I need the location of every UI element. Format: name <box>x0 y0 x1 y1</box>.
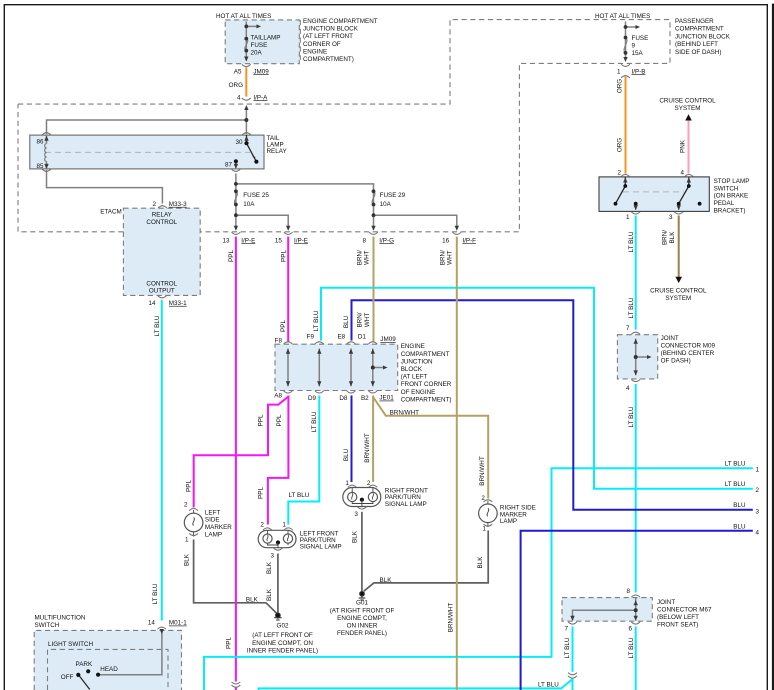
svg-text:LT BLU: LT BLU <box>311 411 318 432</box>
svg-text:JOINT: JOINT <box>657 599 675 606</box>
svg-text:I/P-G: I/P-G <box>379 237 394 244</box>
svg-text:2: 2 <box>756 487 760 494</box>
svg-text:87: 87 <box>225 161 233 168</box>
svg-text:BRN/: BRN/ <box>357 250 364 265</box>
svg-text:LT BLU: LT BLU <box>725 461 746 468</box>
svg-text:SYSTEM: SYSTEM <box>665 295 691 302</box>
svg-text:ETACM: ETACM <box>100 208 122 215</box>
svg-text:BRN/WHT: BRN/WHT <box>364 433 371 463</box>
svg-text:WHT: WHT <box>364 313 371 327</box>
svg-text:(AT LEFT FRONT: (AT LEFT FRONT <box>303 33 353 40</box>
svg-text:ON INNER: ON INNER <box>347 623 378 630</box>
svg-text:PPL: PPL <box>280 320 287 332</box>
svg-text:PPL: PPL <box>226 637 233 649</box>
svg-text:PASSENGER: PASSENGER <box>675 18 714 25</box>
svg-text:3: 3 <box>354 511 358 518</box>
svg-text:RELAY: RELAY <box>152 212 173 219</box>
svg-text:BLK: BLK <box>246 596 259 603</box>
svg-text:WHT: WHT <box>364 250 371 264</box>
svg-text:BLK: BLK <box>669 231 676 244</box>
svg-text:M33-3: M33-3 <box>169 201 187 208</box>
svg-text:8: 8 <box>362 237 366 244</box>
svg-text:BRN/WHT: BRN/WHT <box>390 409 420 416</box>
svg-text:BRN/: BRN/ <box>440 250 447 265</box>
svg-text:BRN/: BRN/ <box>662 230 669 245</box>
svg-text:BRACKET): BRACKET) <box>714 207 746 214</box>
svg-text:15: 15 <box>275 237 283 244</box>
svg-text:OUTPUT: OUTPUT <box>149 288 175 295</box>
svg-text:ORG: ORG <box>229 82 243 89</box>
svg-text:LT BLU: LT BLU <box>628 297 635 318</box>
svg-text:LT BLU: LT BLU <box>628 406 635 427</box>
svg-text:BLU: BLU <box>343 448 350 461</box>
svg-text:BRN/WHT: BRN/WHT <box>479 456 486 486</box>
svg-text:BRN/: BRN/ <box>357 312 364 327</box>
svg-text:2: 2 <box>617 169 621 176</box>
svg-text:LT BLU: LT BLU <box>538 682 559 689</box>
svg-text:OFF: OFF <box>61 674 74 681</box>
svg-text:BLOCK: BLOCK <box>401 366 423 373</box>
svg-text:JUNCTION BLOCK: JUNCTION BLOCK <box>303 26 359 33</box>
svg-text:7: 7 <box>564 625 568 632</box>
svg-text:BLK: BLK <box>266 561 273 574</box>
svg-text:SIGNAL LAMP: SIGNAL LAMP <box>300 543 342 550</box>
svg-text:MULTIFUNCTION: MULTIFUNCTION <box>35 614 86 621</box>
svg-text:(AT LEFT: (AT LEFT <box>401 374 428 381</box>
svg-text:BLK: BLK <box>477 556 484 569</box>
svg-text:1: 1 <box>626 214 630 221</box>
svg-text:LT BLU: LT BLU <box>152 583 159 604</box>
svg-text:MARKER: MARKER <box>205 524 232 531</box>
svg-text:(ON BRAKE: (ON BRAKE <box>714 193 749 200</box>
svg-text:COMPARTMENT): COMPARTMENT) <box>303 56 354 63</box>
svg-text:ENGINE COMPT, ON: ENGINE COMPT, ON <box>252 640 313 647</box>
svg-text:14: 14 <box>148 300 156 307</box>
svg-text:HOT AT ALL TIMES: HOT AT ALL TIMES <box>216 13 271 20</box>
svg-text:1: 1 <box>756 467 760 474</box>
svg-text:JOINT: JOINT <box>661 335 679 342</box>
svg-text:PPL: PPL <box>258 414 265 426</box>
svg-text:FRONT SEAT): FRONT SEAT) <box>657 622 698 629</box>
svg-text:LT BLU: LT BLU <box>628 231 635 252</box>
svg-text:BLK: BLK <box>380 577 393 584</box>
svg-text:G01: G01 <box>356 600 368 607</box>
svg-text:I/P-B: I/P-B <box>632 68 646 75</box>
svg-text:RIGHT SIDE: RIGHT SIDE <box>500 504 536 511</box>
svg-text:OF ENGINE: OF ENGINE <box>401 389 436 396</box>
svg-text:FUSE: FUSE <box>251 42 268 49</box>
svg-text:SIDE OF DASH): SIDE OF DASH) <box>675 49 722 56</box>
svg-text:LAMP: LAMP <box>500 518 517 525</box>
svg-text:A5: A5 <box>234 68 242 75</box>
svg-text:E8: E8 <box>337 333 345 340</box>
svg-text:PARK: PARK <box>76 661 93 668</box>
svg-text:1: 1 <box>185 537 189 544</box>
svg-text:BLK: BLK <box>266 588 273 601</box>
svg-text:13: 13 <box>222 237 230 244</box>
svg-text:LT BLU: LT BLU <box>313 310 320 331</box>
svg-text:PPL: PPL <box>258 487 265 499</box>
svg-text:4: 4 <box>237 94 241 101</box>
svg-text:1: 1 <box>482 525 486 532</box>
svg-text:15A: 15A <box>632 50 644 57</box>
svg-text:ORG: ORG <box>617 79 624 93</box>
svg-text:2: 2 <box>184 501 188 508</box>
svg-text:PNK: PNK <box>680 139 687 153</box>
svg-text:4: 4 <box>680 169 684 176</box>
svg-text:I/P-A: I/P-A <box>253 94 268 101</box>
svg-text:(AT RIGHT FRONT OF: (AT RIGHT FRONT OF <box>330 608 395 615</box>
svg-text:20A: 20A <box>251 50 263 57</box>
svg-text:JUNCTION BLOCK: JUNCTION BLOCK <box>675 33 731 40</box>
svg-text:JE01: JE01 <box>379 395 394 402</box>
svg-text:LT BLU: LT BLU <box>628 637 635 658</box>
svg-text:(BEHIND LEFT: (BEHIND LEFT <box>675 41 718 48</box>
svg-text:INNER FENDER PANEL): INNER FENDER PANEL) <box>247 647 318 654</box>
svg-text:FRONT CORNER: FRONT CORNER <box>401 381 452 388</box>
svg-text:ENGINE COMPARTMENT: ENGINE COMPARTMENT <box>303 18 378 25</box>
svg-text:COMPARTMENT): COMPARTMENT) <box>401 396 452 403</box>
svg-text:PEDAL: PEDAL <box>714 200 735 207</box>
svg-text:PPL: PPL <box>276 414 283 426</box>
svg-text:BRN/WHT: BRN/WHT <box>448 603 455 633</box>
svg-text:JM09: JM09 <box>380 336 396 343</box>
svg-text:1: 1 <box>282 522 286 529</box>
svg-text:2: 2 <box>367 480 371 487</box>
svg-text:SWITCH: SWITCH <box>35 622 60 629</box>
svg-text:LEFT: LEFT <box>205 509 221 516</box>
svg-text:SYSTEM: SYSTEM <box>675 105 701 112</box>
svg-text:FUSE 29: FUSE 29 <box>380 192 406 199</box>
svg-text:86: 86 <box>36 138 44 145</box>
svg-text:ENGINE COMPT,: ENGINE COMPT, <box>337 615 387 622</box>
svg-text:1: 1 <box>345 480 349 487</box>
svg-text:FUSE 25: FUSE 25 <box>243 192 269 199</box>
svg-text:CONTROL: CONTROL <box>146 280 177 287</box>
svg-text:4: 4 <box>756 530 760 537</box>
svg-text:LT BLU: LT BLU <box>564 637 571 658</box>
svg-text:LT BLU: LT BLU <box>154 315 161 336</box>
svg-text:WHT: WHT <box>447 250 454 264</box>
svg-text:LT BLU: LT BLU <box>725 481 746 488</box>
svg-text:30: 30 <box>235 139 243 146</box>
svg-text:(BELOW LEFT: (BELOW LEFT <box>657 614 699 621</box>
svg-text:CONNECTOR M67: CONNECTOR M67 <box>657 607 712 614</box>
svg-text:M01-1: M01-1 <box>169 620 187 627</box>
svg-text:D1: D1 <box>358 333 367 340</box>
svg-text:I/P-F: I/P-F <box>462 237 476 244</box>
svg-text:OF DASH): OF DASH) <box>661 358 691 365</box>
svg-text:BLK: BLK <box>352 530 359 543</box>
svg-text:7: 7 <box>626 325 630 332</box>
svg-text:2: 2 <box>152 201 156 208</box>
svg-text:ORG: ORG <box>617 138 624 152</box>
svg-text:CONTROL: CONTROL <box>146 219 177 226</box>
svg-text:FUSE: FUSE <box>632 35 649 42</box>
svg-text:SWITCH: SWITCH <box>714 185 739 192</box>
svg-text:ENGINE: ENGINE <box>401 343 425 350</box>
svg-text:D9: D9 <box>308 395 317 402</box>
svg-text:F8: F8 <box>275 337 283 344</box>
svg-text:10A: 10A <box>380 201 392 208</box>
svg-text:PPL: PPL <box>228 250 235 262</box>
svg-text:COMPARTMENT: COMPARTMENT <box>675 26 724 33</box>
svg-text:I/P-E: I/P-E <box>241 237 255 244</box>
svg-text:CONNECTOR M09: CONNECTOR M09 <box>661 343 716 350</box>
svg-text:9: 9 <box>632 43 636 50</box>
svg-text:A8: A8 <box>274 393 282 400</box>
svg-text:SIDE: SIDE <box>205 517 220 524</box>
svg-text:2: 2 <box>481 495 485 502</box>
svg-text:JM09: JM09 <box>253 68 269 75</box>
svg-text:I/P-E: I/P-E <box>294 237 308 244</box>
svg-text:BLK: BLK <box>183 553 190 566</box>
svg-text:STOP LAMP: STOP LAMP <box>714 178 750 185</box>
svg-text:3: 3 <box>669 214 673 221</box>
svg-text:8: 8 <box>626 588 630 595</box>
svg-text:10A: 10A <box>243 201 255 208</box>
svg-text:14: 14 <box>148 620 156 627</box>
svg-text:(BEHIND CENTER: (BEHIND CENTER <box>661 350 715 357</box>
svg-text:16: 16 <box>442 237 450 244</box>
svg-text:M33-1: M33-1 <box>169 300 187 307</box>
svg-text:3: 3 <box>756 508 760 515</box>
svg-text:LT BLU: LT BLU <box>289 492 310 499</box>
svg-text:TAILLAMP: TAILLAMP <box>251 35 281 42</box>
svg-text:ENGINE: ENGINE <box>303 48 327 55</box>
svg-text:3: 3 <box>270 553 274 560</box>
svg-text:G02: G02 <box>277 623 289 630</box>
svg-text:85: 85 <box>36 163 44 170</box>
svg-text:1: 1 <box>617 68 621 75</box>
svg-text:PPL: PPL <box>280 250 287 262</box>
svg-text:(AT LEFT FRONT OF: (AT LEFT FRONT OF <box>252 632 313 639</box>
svg-text:2: 2 <box>260 522 264 529</box>
svg-text:BLU: BLU <box>733 523 746 530</box>
svg-text:LAMP: LAMP <box>205 531 222 538</box>
svg-text:FENDER PANEL): FENDER PANEL) <box>337 630 387 637</box>
svg-text:CRUISE CONTROL: CRUISE CONTROL <box>659 98 716 105</box>
svg-text:PPL: PPL <box>186 480 193 492</box>
svg-text:B2: B2 <box>361 395 369 402</box>
svg-text:F9: F9 <box>307 333 315 340</box>
svg-text:4: 4 <box>626 385 630 392</box>
svg-text:SIGNAL LAMP: SIGNAL LAMP <box>385 501 427 508</box>
svg-text:6: 6 <box>628 625 632 632</box>
svg-text:LIGHT SWITCH: LIGHT SWITCH <box>48 641 93 648</box>
svg-text:RELAY: RELAY <box>267 148 288 155</box>
svg-text:BLU: BLU <box>733 502 746 509</box>
svg-text:BLU: BLU <box>343 315 350 328</box>
svg-text:D8: D8 <box>339 395 348 402</box>
svg-text:HEAD: HEAD <box>100 666 118 673</box>
svg-text:COMPARTMENT: COMPARTMENT <box>401 351 450 358</box>
svg-text:HOT AT ALL TIMES: HOT AT ALL TIMES <box>595 13 650 20</box>
svg-text:JUNCTION: JUNCTION <box>401 358 433 365</box>
svg-text:CORNER OF: CORNER OF <box>303 41 341 48</box>
svg-text:CRUISE CONTROL: CRUISE CONTROL <box>650 287 707 294</box>
